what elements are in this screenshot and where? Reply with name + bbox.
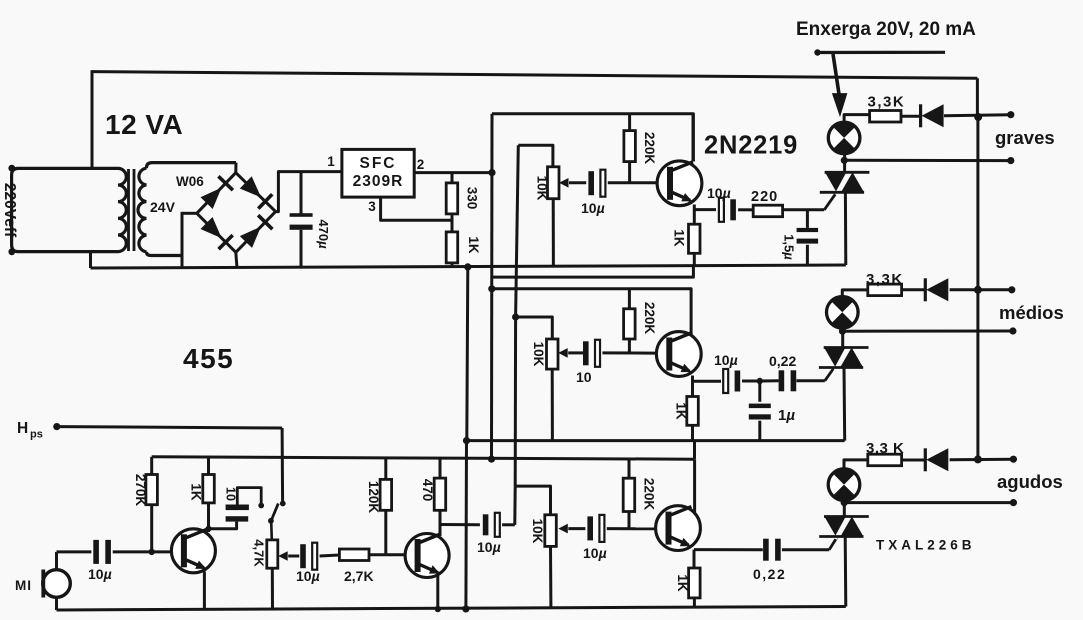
svg-text:3,3K: 3,3K [868,94,906,111]
svg-text:10K: 10K [535,176,550,201]
svg-text:1,5µ: 1,5µ [782,234,797,260]
svg-text:1µ: 1µ [778,407,795,424]
svg-text:1K: 1K [189,483,204,501]
svg-text:2N2219: 2N2219 [704,132,798,160]
svg-text:graves: graves [995,127,1055,148]
svg-text:330: 330 [465,187,480,210]
svg-text:220Veff: 220Veff [1,183,18,238]
svg-text:3: 3 [368,199,376,214]
svg-text:470: 470 [420,479,435,502]
svg-text:10µ: 10µ [714,352,738,368]
svg-text:médios: médios [999,302,1064,323]
svg-text:455: 455 [183,343,234,374]
svg-text:220: 220 [751,189,778,205]
svg-text:10K: 10K [531,342,546,367]
svg-text:24V: 24V [150,199,176,215]
svg-text:10µ: 10µ [581,200,605,216]
svg-text:Enxerga 20V, 20 mA: Enxerga 20V, 20 mA [796,19,976,40]
svg-text:0,22: 0,22 [769,353,796,369]
svg-text:SFC: SFC [360,155,397,172]
svg-text:2309R: 2309R [353,173,404,190]
svg-text:10µ: 10µ [583,545,607,561]
svg-text:1K: 1K [672,229,687,247]
svg-text:TXAL226B: TXAL226B [876,538,976,553]
svg-text:10µ: 10µ [477,539,501,555]
svg-text:3,3K: 3,3K [866,271,904,288]
svg-text:10µ: 10µ [707,185,731,201]
svg-text:470µ: 470µ [316,219,331,249]
svg-text:10: 10 [576,369,592,385]
svg-text:MI: MI [15,578,32,593]
svg-text:1K: 1K [674,402,689,420]
svg-text:1K: 1K [466,236,481,254]
svg-text:10µ: 10µ [296,568,320,584]
svg-text:3,3 K: 3,3 K [866,440,904,457]
svg-text:4,7K: 4,7K [252,539,267,567]
svg-text:12 VA: 12 VA [105,109,183,140]
svg-text:1K: 1K [675,574,690,592]
svg-text:10K: 10K [530,519,545,544]
svg-text:220K: 220K [642,302,657,335]
svg-text:2: 2 [417,157,425,172]
svg-text:0,22: 0,22 [753,566,786,582]
svg-text:10µ: 10µ [88,566,112,582]
svg-text:ps: ps [30,429,43,441]
svg-text:120K: 120K [366,481,381,514]
svg-text:1: 1 [327,154,335,169]
svg-text:10: 10 [224,487,238,501]
svg-text:2,7K: 2,7K [344,568,374,584]
svg-text:220K: 220K [642,478,657,511]
svg-text:270K: 270K [133,474,148,507]
svg-text:agudos: agudos [997,471,1063,492]
svg-text:220K: 220K [642,132,657,165]
svg-text:W06: W06 [176,174,204,189]
svg-text:H: H [17,420,28,437]
